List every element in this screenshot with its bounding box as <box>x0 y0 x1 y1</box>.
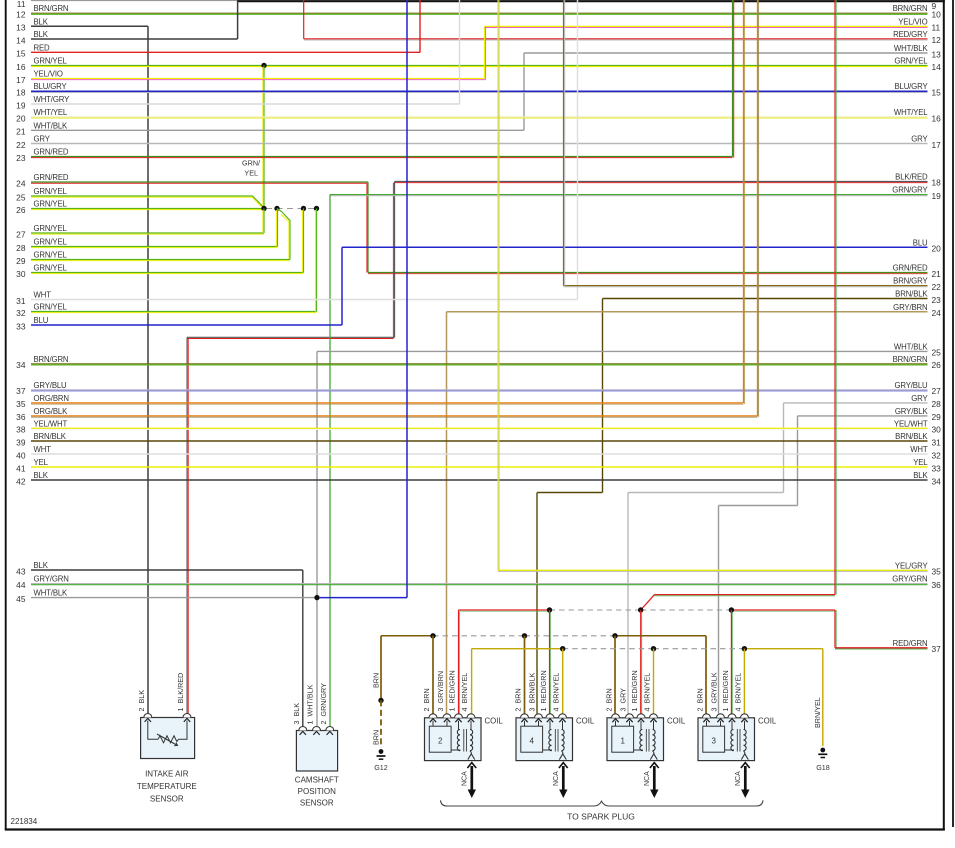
svg-text:26: 26 <box>932 360 942 370</box>
svg-text:45: 45 <box>16 594 26 604</box>
svg-text:36: 36 <box>932 580 942 590</box>
svg-text:BRN/BLK: BRN/BLK <box>895 290 928 299</box>
svg-text:YEL: YEL <box>34 458 49 467</box>
svg-text:39: 39 <box>16 437 26 447</box>
svg-text:11: 11 <box>932 23 941 33</box>
svg-text:16: 16 <box>932 113 942 123</box>
svg-text:2 GRN/GRY: 2 GRN/GRY <box>319 683 328 725</box>
svg-text:38: 38 <box>16 425 26 435</box>
wire 26-left GRN/YEL horizontal <box>31 208 264 210</box>
dashed bus segment coil2-coil3 <box>563 648 654 650</box>
svg-text:3 BLK: 3 BLK <box>292 703 301 725</box>
svg-text:18: 18 <box>932 178 942 188</box>
ignition coil 1 (COIL) <box>607 714 664 761</box>
svg-text:RED/GRY: RED/GRY <box>893 30 928 39</box>
wire 13-right WHT/BLK horizontal <box>524 52 928 54</box>
wire 14 BLK vertical up to top edge <box>237 1 239 39</box>
svg-text:BRN: BRN <box>371 730 380 745</box>
border frame right <box>943 0 945 830</box>
svg-text:15: 15 <box>932 88 942 98</box>
dashed link of junction row <box>266 208 315 210</box>
svg-text:COIL: COIL <box>485 717 504 726</box>
svg-text:42: 42 <box>16 476 26 486</box>
BRN solid segment coil3-coil4 <box>615 635 706 637</box>
svg-text:28: 28 <box>932 399 942 409</box>
svg-text:ORG/BLK: ORG/BLK <box>34 407 69 416</box>
svg-text:BRN/GRN: BRN/GRN <box>893 355 928 364</box>
svg-text:GRY/BLU: GRY/BLU <box>894 381 928 390</box>
svg-text:GRY: GRY <box>34 135 51 144</box>
wire 13 BLK vertical down to intake air temp sensor pin 2 <box>147 26 149 713</box>
svg-text:17: 17 <box>932 140 942 150</box>
svg-text:22: 22 <box>16 140 26 150</box>
svg-text:32: 32 <box>932 450 942 460</box>
svg-text:YEL/VIO: YEL/VIO <box>898 17 927 26</box>
svg-text:COIL: COIL <box>758 717 777 726</box>
svg-text:BLK: BLK <box>34 561 49 570</box>
RED/GRN solid bus segment coil1-coil2 y=610 <box>459 609 550 611</box>
svg-text:31: 31 <box>932 437 942 447</box>
BRN drop to coil 4 pin 2 <box>705 636 707 714</box>
wire 34-left BRN/GRN to 26-right, full width <box>31 363 928 365</box>
wire 29-left GRN/YEL + diagonal jog to dot 2 <box>31 259 290 261</box>
border frame bottom <box>5 828 945 830</box>
svg-text:GRY: GRY <box>911 394 928 403</box>
wire 37-right RED/GRN horizontal <box>835 647 928 649</box>
ground symbol G18 <box>820 748 825 753</box>
svg-text:BRN/BLK: BRN/BLK <box>895 432 928 441</box>
svg-text:NCA: NCA <box>553 771 560 786</box>
svg-text:BLK: BLK <box>913 471 928 480</box>
ignition coil 3 (COIL) <box>698 714 755 761</box>
svg-text:G18: G18 <box>816 763 830 772</box>
wire 30-left GRN/YEL + vertical to dot 3 <box>31 272 304 274</box>
intake sensor pin 1 <box>183 714 191 718</box>
svg-text:WHT/GRY: WHT/GRY <box>34 95 71 104</box>
svg-text:2 BRN: 2 BRN <box>514 688 523 711</box>
svg-text:GRN/YEL: GRN/YEL <box>34 251 68 260</box>
svg-text:43: 43 <box>16 566 26 576</box>
svg-text:4 BRN/YEL: 4 BRN/YEL <box>643 673 652 712</box>
svg-text:20: 20 <box>932 244 942 254</box>
intake air temperature sensor box <box>141 718 195 759</box>
svg-text:1 RED/GRN: 1 RED/GRN <box>630 670 639 711</box>
svg-text:33: 33 <box>932 463 942 473</box>
BRN/BLK vertical down to coil 2 pin 3 <box>536 493 538 714</box>
wire 19-right GRN/GRY horizontal <box>330 194 928 196</box>
svg-text:22: 22 <box>932 282 942 292</box>
wire 43-left BLK horizontal <box>31 569 303 571</box>
BRN bus: riser from G12 stub x=381 <box>380 636 382 701</box>
NCA spark output arrow of coil 1 <box>653 766 656 794</box>
WHT/GRY vertical up to top edge <box>459 0 461 104</box>
svg-text:WHT/BLK: WHT/BLK <box>34 589 69 598</box>
svg-text:3 BRN/BLK: 3 BRN/BLK <box>528 673 537 712</box>
wire 15-left RED horizontal <box>31 51 420 53</box>
junction dots on BRN/YEL bus <box>560 646 565 651</box>
BRN drops to coil pins 2 <box>432 636 434 714</box>
svg-text:30: 30 <box>932 425 942 435</box>
svg-text:BRN/YEL: BRN/YEL <box>813 697 822 728</box>
wire 41-left YEL to 33-right, full width <box>31 466 928 468</box>
wire 42-left BLK to 34-right, full width <box>31 479 928 481</box>
svg-text:BLK/RED: BLK/RED <box>895 172 928 181</box>
svg-text:COIL: COIL <box>667 717 686 726</box>
svg-text:BRN/GRN: BRN/GRN <box>34 355 69 364</box>
svg-text:4 BRN/YEL: 4 BRN/YEL <box>552 673 561 712</box>
wire 17-left YEL/VIO horizontal <box>31 78 485 80</box>
NCA spark output arrow of coil 2 <box>470 766 473 794</box>
WHT/BLK vertical link x=524 <box>523 53 525 130</box>
svg-text:NCA: NCA <box>461 771 468 786</box>
svg-text:GRN/RED: GRN/RED <box>893 264 928 273</box>
svg-text:GRN/YEL: GRN/YEL <box>34 57 68 66</box>
svg-text:27: 27 <box>16 229 26 239</box>
svg-text:GRN/YEL: GRN/YEL <box>34 264 68 273</box>
svg-text:24: 24 <box>16 178 26 188</box>
wire 38-left YEL/WHT to 30-right, full width <box>31 427 928 429</box>
svg-text:BLU/GRY: BLU/GRY <box>894 82 928 91</box>
svg-text:SENSOR: SENSOR <box>150 795 184 804</box>
WHT vertical up to top edge x=577.5 <box>577 0 579 300</box>
wire 33-left BLU horizontal <box>31 324 342 326</box>
wire 35-left ORG/BRN horizontal <box>31 402 744 404</box>
svg-text:GRN/YEL: GRN/YEL <box>34 187 68 196</box>
WHT/BLK vertical down to camshaft position sensor pin 1 <box>316 351 318 726</box>
wire 31-left WHT horizontal <box>31 299 578 301</box>
wire 28-right GRY horizontal <box>784 402 928 404</box>
junction dot on wire 16 <box>261 63 266 68</box>
ground symbol G12 <box>379 749 384 754</box>
svg-text:35: 35 <box>16 399 26 409</box>
svg-text:GRN/: GRN/ <box>242 159 260 168</box>
wire 45-left WHT/BLK horizontal <box>31 597 317 599</box>
svg-text:WHT/BLK: WHT/BLK <box>894 44 929 53</box>
svg-text:YEL/WHT: YEL/WHT <box>34 419 68 428</box>
svg-text:36: 36 <box>16 412 26 422</box>
wire 11/9 (cut at top edge) <box>31 0 237 2</box>
BLU vertical from top edge x=407 <box>406 0 408 598</box>
svg-text:RED/GRN: RED/GRN <box>893 639 928 648</box>
svg-text:2 BRN: 2 BRN <box>696 688 705 711</box>
wire 18-left BLU/GRY to 15-right, full width <box>31 90 928 92</box>
wire 16-left GRN/YEL to 14-right, full width <box>31 65 928 67</box>
GRN/RED vertical up to top edge x=732.5 <box>732 0 734 157</box>
svg-text:13: 13 <box>16 23 26 33</box>
wire 21-left WHT/BLK horizontal <box>31 129 524 131</box>
svg-text:GRN/YEL: GRN/YEL <box>34 303 68 312</box>
svg-text:15: 15 <box>16 49 26 59</box>
BLK/RED horizontal y=337 <box>187 336 395 338</box>
svg-text:11: 11 <box>17 0 26 9</box>
NCA spark output arrow of coil 3 <box>744 766 747 794</box>
BLK/RED vertical x=394.6 <box>394 181 396 337</box>
svg-text:GRN/YEL: GRN/YEL <box>34 200 68 209</box>
wire 20-left WHT/YEL to 16-right, full width <box>31 116 928 118</box>
wire 27-left GRN/YEL + vertical to dot 1 <box>31 232 264 234</box>
svg-text:GRY/BLU: GRY/BLU <box>34 381 68 390</box>
RED/GRN diagonal jog down to coil 3 junction <box>641 595 655 610</box>
svg-text:16: 16 <box>16 62 26 72</box>
svg-text:SENSOR: SENSOR <box>300 799 334 808</box>
GRY vertical x=783.5 down <box>783 403 785 493</box>
svg-text:INTAKE AIR: INTAKE AIR <box>145 770 189 779</box>
svg-text:YEL/VIO: YEL/VIO <box>34 70 63 79</box>
RED/GRY vertical from top edge <box>303 0 305 39</box>
svg-text:23: 23 <box>932 295 942 305</box>
svg-text:26: 26 <box>16 205 26 215</box>
svg-text:WHT: WHT <box>34 291 52 300</box>
svg-text:4: 4 <box>529 737 534 746</box>
wire 14-left BLK horizontal <box>31 38 238 40</box>
svg-text:30: 30 <box>16 269 26 279</box>
dashed bus segment coil2-coil3 <box>525 635 616 637</box>
brace TO SPARK PLUG <box>441 800 764 806</box>
svg-text:3 GRY/BLK: 3 GRY/BLK <box>710 672 719 711</box>
RED/GRN vertical x=835 lower section <box>834 610 836 648</box>
svg-text:29: 29 <box>932 412 942 422</box>
svg-text:34: 34 <box>932 476 942 486</box>
svg-text:12: 12 <box>932 35 942 45</box>
GRY/BLK jog left at y=505.5 <box>719 505 798 507</box>
wire 40-left WHT to 32-right, full width <box>31 453 928 455</box>
border frame left <box>5 0 7 830</box>
svg-text:COIL: COIL <box>576 717 595 726</box>
RED/GRN vertical from top edge x=835 <box>834 0 836 595</box>
svg-text:WHT: WHT <box>34 445 52 454</box>
svg-text:27: 27 <box>932 386 942 396</box>
svg-text:31: 31 <box>16 296 26 306</box>
GRN/GRY vertical x=330 down to camshaft position sensor pin 2 <box>329 195 331 727</box>
wire 37-left GRY/BLU to 27-right, full width <box>31 389 928 391</box>
svg-text:GRY/BRN: GRY/BRN <box>893 303 927 312</box>
svg-text:44: 44 <box>16 580 26 590</box>
GRY jog left at y=492.5 <box>628 492 784 494</box>
junction dot wire 45 / camshaft pin 1 net <box>314 595 319 600</box>
svg-text:40: 40 <box>16 450 26 460</box>
svg-text:WHT/BLK: WHT/BLK <box>894 342 929 351</box>
svg-text:WHT/BLK: WHT/BLK <box>34 121 69 130</box>
junction dots on RED/GRN bus <box>547 607 552 612</box>
svg-text:GRY: GRY <box>911 135 928 144</box>
svg-text:TO SPARK PLUG: TO SPARK PLUG <box>567 812 635 822</box>
svg-text:4 BRN/YEL: 4 BRN/YEL <box>734 673 743 712</box>
svg-text:RED: RED <box>34 43 51 52</box>
svg-text:21: 21 <box>16 127 26 137</box>
GRN/YEL vertical x=264 down to distribution row <box>263 66 265 209</box>
svg-text:25: 25 <box>932 348 942 358</box>
svg-text:YEL/GRY: YEL/GRY <box>895 561 929 570</box>
svg-text:3 GRY/BRN: 3 GRY/BRN <box>436 671 445 712</box>
svg-text:GRN/GRY: GRN/GRY <box>892 186 928 195</box>
wire 35-right YEL/GRY horizontal <box>498 569 928 571</box>
BRN/GRY vertical from top edge x=563.5 <box>563 0 565 286</box>
dashed bus segment coil3-coil4 <box>654 648 745 650</box>
svg-text:BRN/BLK: BRN/BLK <box>34 432 67 441</box>
wire 22-left GRY to 17-right, full width <box>31 143 928 145</box>
svg-text:NCA: NCA <box>644 771 651 786</box>
wire 22-right BRN/GRY horizontal <box>564 285 928 287</box>
RED/GRN horizontal y=594.6 <box>655 594 836 596</box>
svg-text:YEL/WHT: YEL/WHT <box>894 419 928 428</box>
wire 20-right BLU horizontal <box>342 246 928 248</box>
wire 23-left GRN/RED horizontal <box>31 156 733 158</box>
BLK/RED vertical down to intake air temp sensor pin 1 <box>186 337 188 713</box>
svg-text:BRN/GRY: BRN/GRY <box>893 277 928 286</box>
svg-text:WHT/YEL: WHT/YEL <box>34 108 68 117</box>
wire 24-left GRN/RED horizontal <box>31 181 368 183</box>
svg-text:19: 19 <box>16 100 26 110</box>
svg-text:GRY/GRN: GRY/GRN <box>34 575 69 584</box>
svg-text:1 WHT/BLK: 1 WHT/BLK <box>306 684 315 724</box>
dashed bus segment coil3-coil4 <box>641 609 732 611</box>
svg-text:10: 10 <box>932 10 942 20</box>
svg-text:34: 34 <box>16 360 26 370</box>
svg-text:24: 24 <box>932 308 942 318</box>
dashed bus segment coil1-coil2 <box>433 635 525 637</box>
GRY/BRN vertical down to coil 1 pin 3 <box>446 312 448 714</box>
wire 32-left GRN/YEL + vertical to dot 4 <box>31 311 317 313</box>
camshaft position sensor box <box>296 731 337 772</box>
GRY/BLK vertical x=797.5 down <box>797 416 799 506</box>
svg-text:25: 25 <box>16 192 26 202</box>
wire 39-left BRN/BLK to 31-right, full width <box>31 440 928 442</box>
BRN/YEL riser corner at coil 1 pin 4 <box>471 649 473 714</box>
svg-text:NCA: NCA <box>735 771 742 786</box>
svg-text:GRY/GRN: GRY/GRN <box>892 575 927 584</box>
dashed bus segment coil2-coil3 <box>550 609 641 611</box>
ignition coil 4 (COIL) <box>516 714 573 761</box>
BRN/YEL drops to coil pins 4 <box>562 649 564 714</box>
wire 28-left GRN/YEL + vertical to dot 2 <box>31 246 278 248</box>
svg-text:1: 1 <box>620 737 625 746</box>
svg-text:14: 14 <box>16 35 26 45</box>
svg-text:19: 19 <box>932 191 942 201</box>
ORG/BLK vertical from top edge x=757.5 <box>757 0 759 416</box>
svg-text:BLU: BLU <box>913 238 928 247</box>
border frame top (starts at x=237) <box>237 0 945 2</box>
svg-text:BLK: BLK <box>34 17 49 26</box>
svg-text:29: 29 <box>16 256 26 266</box>
svg-text:1 BLK/RED: 1 BLK/RED <box>176 673 185 712</box>
svg-text:BRN/GRN: BRN/GRN <box>34 4 69 13</box>
svg-text:20: 20 <box>16 113 26 123</box>
svg-text:18: 18 <box>16 88 26 98</box>
svg-text:32: 32 <box>16 308 26 318</box>
svg-text:GRN/RED: GRN/RED <box>34 173 69 182</box>
svg-text:14: 14 <box>932 62 942 72</box>
svg-text:21: 21 <box>932 269 942 279</box>
wire 25-left GRN/YEL with jog to junction row <box>31 196 264 209</box>
wire 13-left BLK horizontal <box>31 25 148 27</box>
junction dots on BRN bus <box>430 633 435 638</box>
BLU horizontal link into junction <box>319 597 407 599</box>
GRY vertical down to coil 3 pin 3 <box>627 493 629 714</box>
ORG/BRN vertical from top edge x=743.5 <box>743 0 745 403</box>
wire 11-right YEL/VIO horizontal <box>485 25 928 27</box>
wire 24-right GRY/BRN horizontal <box>447 311 928 313</box>
svg-text:BRN: BRN <box>371 673 380 688</box>
camshaft sensor pins 3,1,2 <box>299 727 307 731</box>
svg-text:ORG/BRN: ORG/BRN <box>34 394 69 403</box>
BRN/YEL vertical down to ground G18 <box>822 649 824 746</box>
svg-text:41: 41 <box>16 463 26 473</box>
svg-text:33: 33 <box>16 321 26 331</box>
svg-text:17: 17 <box>16 75 26 85</box>
wire 21-right GRN/RED horizontal <box>368 272 928 274</box>
BRN solid bus segment to coil 1 <box>381 635 433 637</box>
wire 18-right BLK/RED horizontal <box>395 180 928 182</box>
YEL/GRY vertical from top edge x=498 <box>497 0 499 570</box>
svg-text:3: 3 <box>711 737 716 746</box>
NCA spark output arrow of coil 4 <box>562 766 565 794</box>
svg-text:G12: G12 <box>374 763 388 772</box>
wire 36-left ORG/BLK horizontal <box>31 415 758 417</box>
svg-text:1 RED/GRN: 1 RED/GRN <box>721 670 730 711</box>
svg-text:WHT/YEL: WHT/YEL <box>894 108 928 117</box>
wire 25-right WHT/BLK horizontal <box>317 350 928 352</box>
ignition coil 2 (COIL) <box>425 714 482 761</box>
BLU vertical link x=342 <box>341 247 343 325</box>
svg-text:37: 37 <box>932 644 942 654</box>
svg-text:GRY/BLK: GRY/BLK <box>895 407 929 416</box>
GRY/BLK vertical down to coil 4 pin 3 <box>718 506 720 714</box>
svg-text:BLK: BLK <box>34 30 49 39</box>
wire 12-left BRN/GRN to 10-right, full width <box>31 12 928 14</box>
RED/GRN solid segment coil4 to x=835 <box>731 609 835 611</box>
svg-text:TEMPERATURE: TEMPERATURE <box>137 782 197 791</box>
svg-text:YEL: YEL <box>913 458 928 467</box>
svg-text:1 RED/GRN: 1 RED/GRN <box>539 670 548 711</box>
svg-text:CAMSHAFT: CAMSHAFT <box>295 776 339 785</box>
svg-text:BLU/GRY: BLU/GRY <box>34 82 68 91</box>
wire 23-right BRN/BLK horizontal <box>603 298 928 300</box>
GRN/RED vertical x=368 down <box>367 182 369 273</box>
svg-text:GRN/YEL: GRN/YEL <box>34 224 68 233</box>
svg-text:3 GRY: 3 GRY <box>619 688 628 712</box>
wire 29-right GRY/BLK horizontal <box>798 415 928 417</box>
svg-text:GRN/YEL: GRN/YEL <box>34 238 68 247</box>
YEL/VIO vertical link x=484.5 <box>484 26 486 78</box>
RED/GRN drops to coil pins 1 <box>458 610 460 714</box>
svg-text:BLU: BLU <box>34 316 49 325</box>
svg-text:35: 35 <box>932 567 942 577</box>
svg-text:2 BLK: 2 BLK <box>137 690 146 712</box>
svg-text:POSITION: POSITION <box>298 787 336 796</box>
thermistor symbol inside intake sensor <box>148 721 158 740</box>
svg-text:2: 2 <box>438 737 443 746</box>
G12 junction dot <box>378 698 383 703</box>
svg-text:2 BRN: 2 BRN <box>422 688 431 711</box>
svg-text:12: 12 <box>16 10 26 20</box>
junction dots (distribution row) <box>261 206 266 211</box>
wire 19-left WHT/GRY horizontal <box>31 103 460 105</box>
BRN/BLK jog left at y=492.5 <box>537 492 603 494</box>
svg-text:2 BRN: 2 BRN <box>605 688 614 711</box>
svg-text:37: 37 <box>16 386 26 396</box>
svg-text:GRN/YEL: GRN/YEL <box>894 57 928 66</box>
wire 43 BLK vertical down to camshaft position sensor pin 3 <box>302 570 304 727</box>
svg-text:BRN/GRN: BRN/GRN <box>893 4 928 13</box>
BRN/YEL solid segment coil4 to G18 riser <box>744 648 822 650</box>
wire 12-right RED/GRY horizontal <box>304 38 928 40</box>
svg-text:221834: 221834 <box>11 817 38 826</box>
wire 44-left GRY/GRN to 36-right, full width <box>31 583 928 585</box>
svg-text:28: 28 <box>16 243 26 253</box>
svg-text:23: 23 <box>16 153 26 163</box>
svg-text:4 BRN/YEL: 4 BRN/YEL <box>460 673 469 712</box>
page edge line right <box>952 0 954 827</box>
